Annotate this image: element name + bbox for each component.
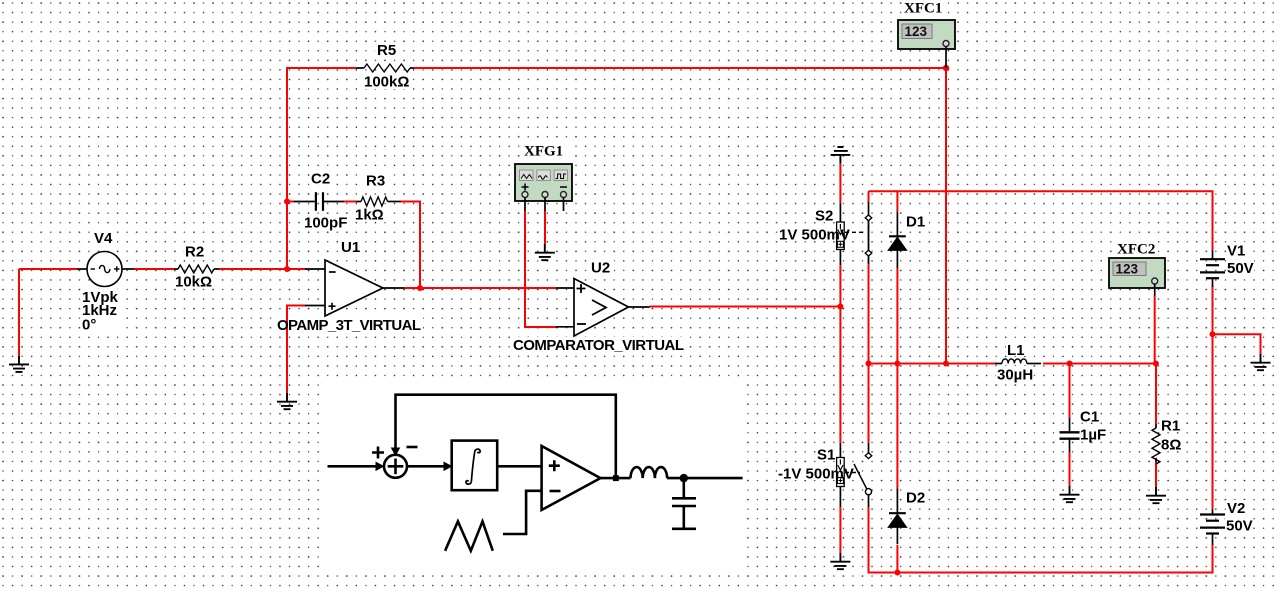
svg-text:50V: 50V (1227, 260, 1254, 277)
svg-text:COMPARATOR_VIRTUAL: COMPARATOR_VIRTUAL (513, 337, 684, 354)
svg-text:123: 123 (1116, 262, 1139, 277)
svg-text:XFG1: XFG1 (524, 144, 563, 160)
svg-text:100pF: 100pF (304, 215, 347, 232)
svg-text:D1: D1 (906, 214, 925, 231)
svg-text:V1: V1 (1227, 243, 1245, 260)
svg-text:1kΩ: 1kΩ (355, 207, 384, 224)
svg-text:XFC2: XFC2 (1117, 242, 1155, 258)
svg-text:V4: V4 (94, 230, 113, 247)
svg-text:D2: D2 (906, 490, 925, 507)
svg-text:V2: V2 (1227, 500, 1245, 517)
svg-text:U1: U1 (341, 239, 360, 256)
svg-text:R1: R1 (1161, 418, 1180, 435)
svg-text:1V 500mV: 1V 500mV (779, 227, 850, 244)
svg-text:OPAMP_3T_VIRTUAL: OPAMP_3T_VIRTUAL (277, 317, 421, 334)
svg-text:-1V 500mV: -1V 500mV (778, 466, 854, 483)
svg-text:1µF: 1µF (1080, 427, 1106, 444)
svg-text:S1: S1 (817, 447, 835, 464)
svg-text:50V: 50V (1226, 518, 1253, 535)
svg-text:30µH: 30µH (997, 367, 1033, 384)
svg-text:XFC1: XFC1 (904, 1, 942, 17)
svg-text:R5: R5 (377, 42, 396, 59)
svg-text:100kΩ: 100kΩ (364, 74, 409, 91)
svg-text:10kΩ: 10kΩ (175, 274, 212, 291)
svg-text:L1: L1 (1007, 342, 1025, 359)
svg-text:U2: U2 (591, 260, 610, 277)
svg-text:C2: C2 (311, 171, 330, 188)
svg-text:R3: R3 (366, 173, 385, 190)
svg-text:R2: R2 (185, 244, 204, 261)
svg-text:0°: 0° (82, 317, 96, 334)
svg-text:123: 123 (905, 24, 928, 39)
svg-text:8Ω: 8Ω (1161, 437, 1181, 454)
svg-text:S2: S2 (815, 208, 833, 225)
svg-text:C1: C1 (1080, 409, 1099, 426)
